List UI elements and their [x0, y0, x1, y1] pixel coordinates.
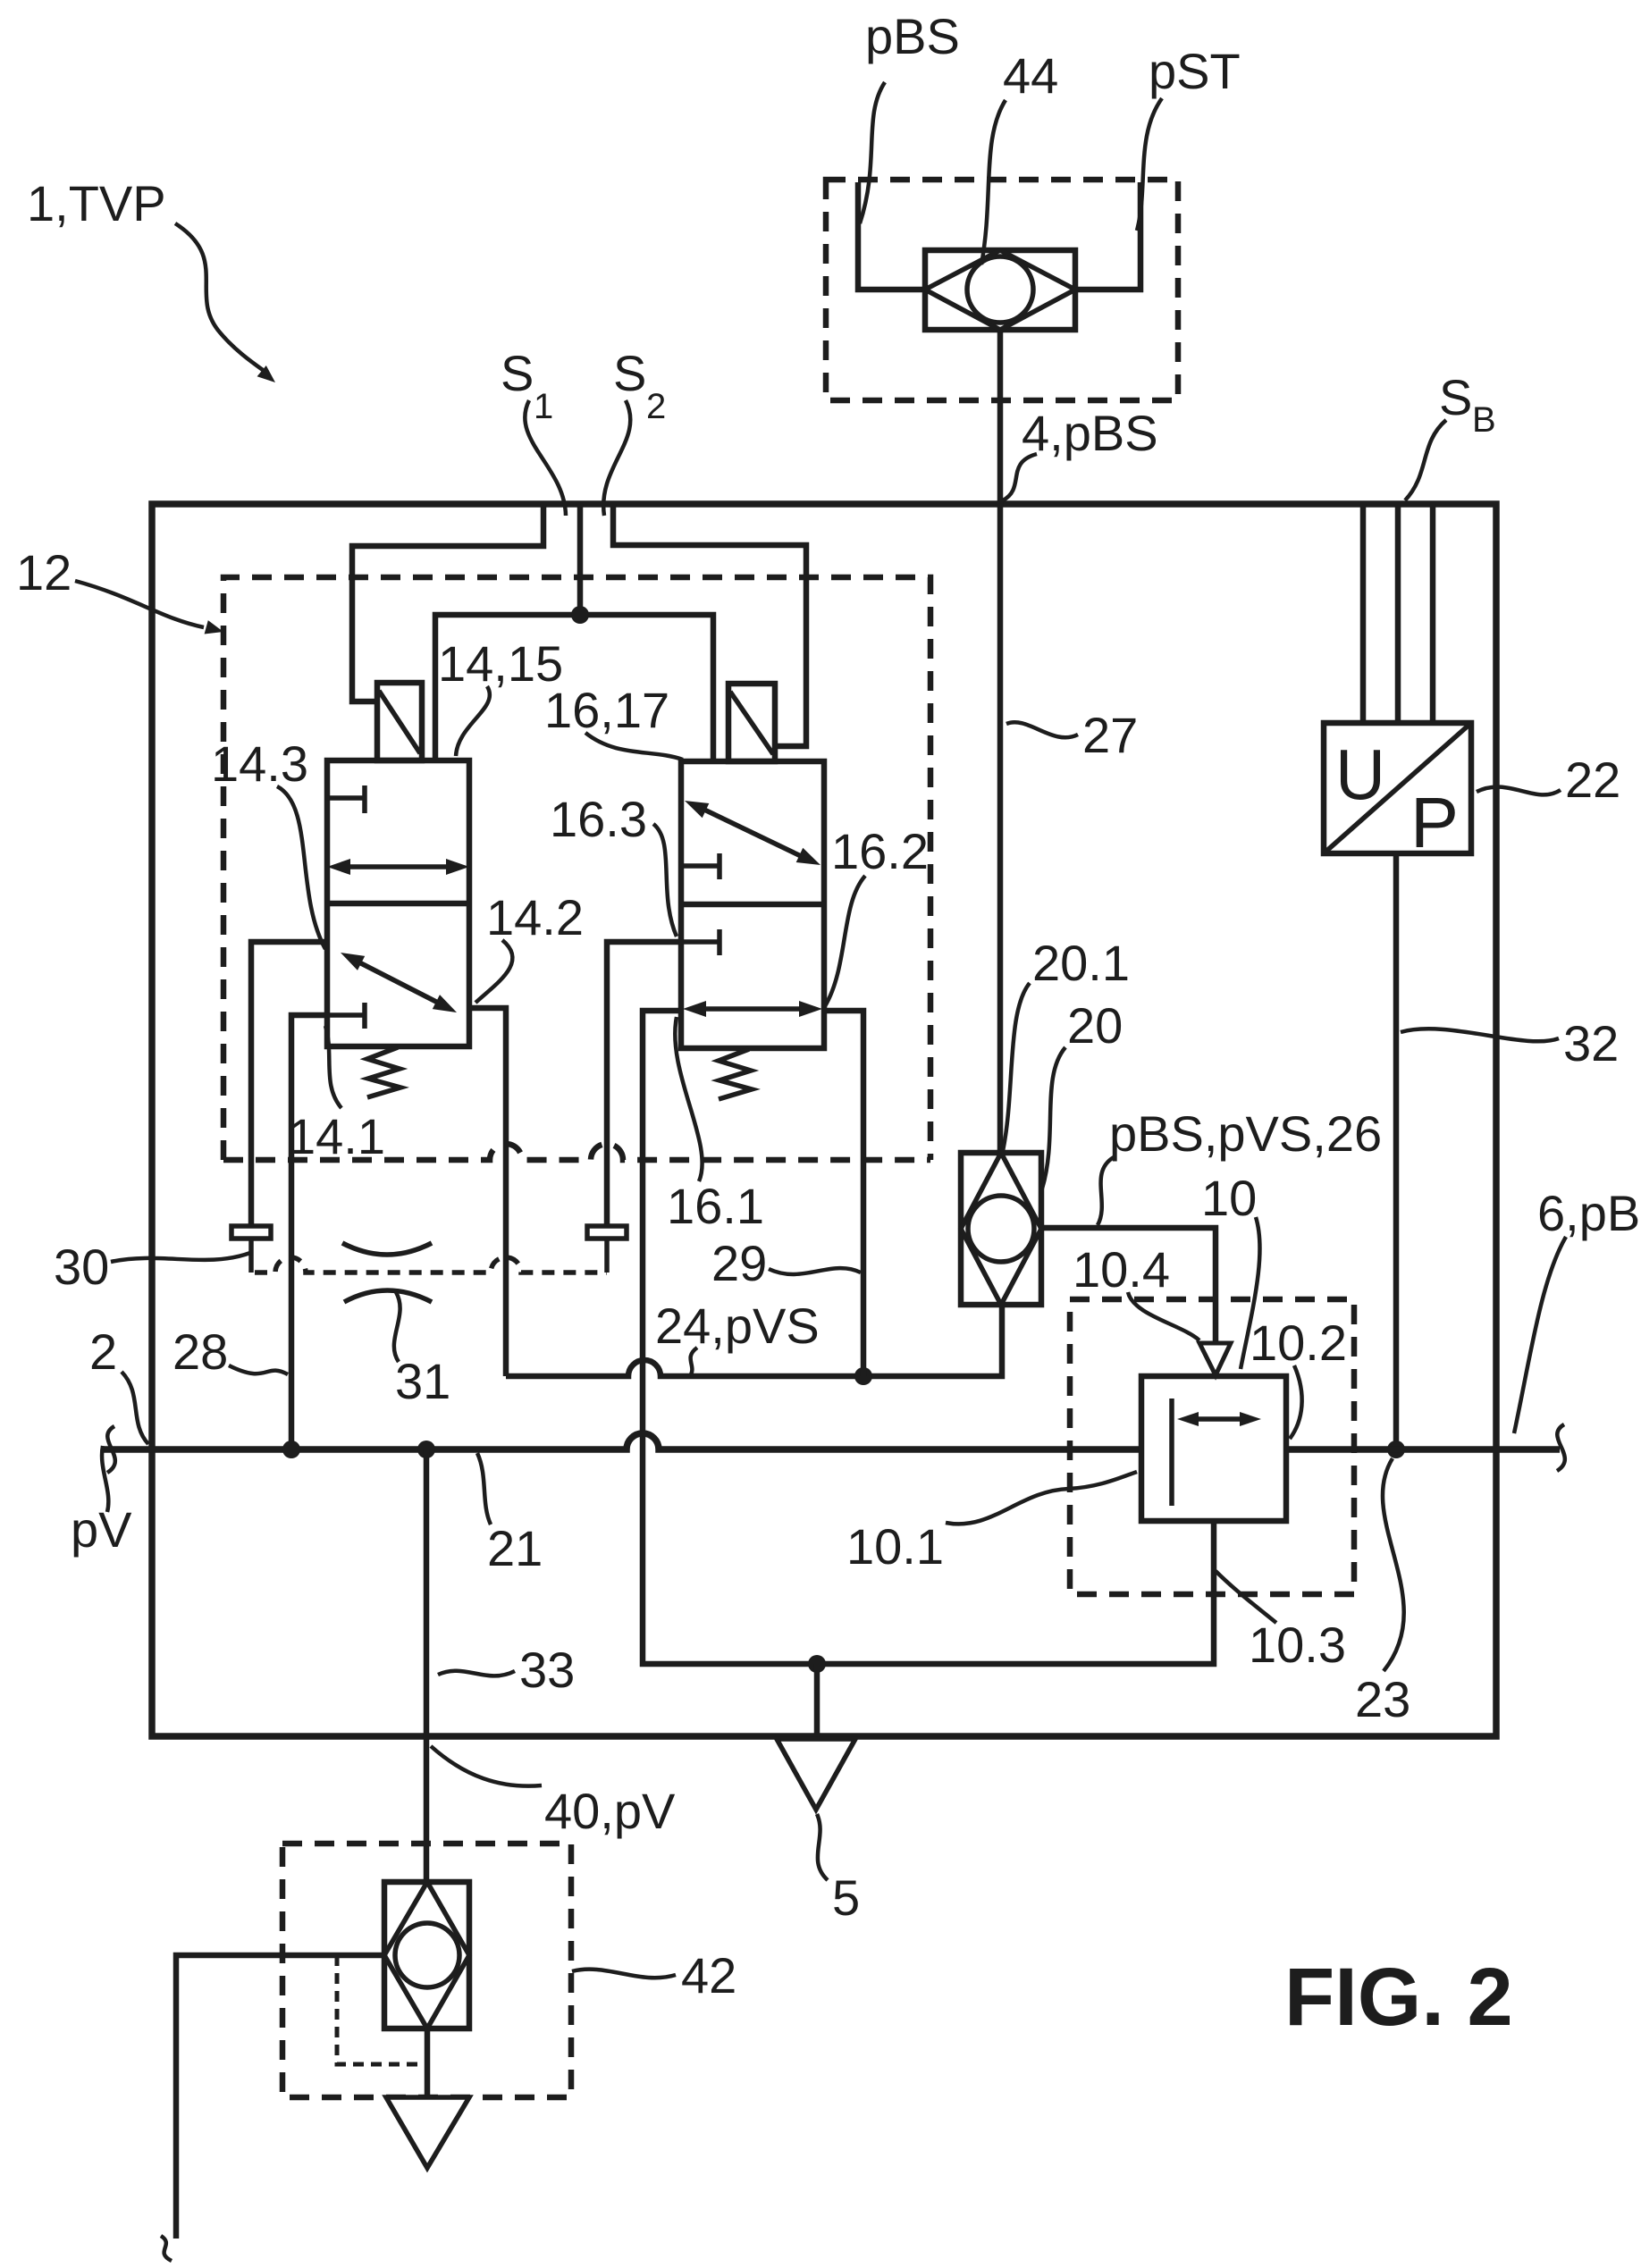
svg-text:pBS,pVS,26: pBS,pVS,26 [1109, 1105, 1382, 1162]
svg-text:28: 28 [173, 1323, 228, 1380]
valve 16 upper chamber diagonal double arrow [704, 810, 801, 856]
svg-text:32: 32 [1563, 1015, 1619, 1071]
wire: side feed line into check valve 42 [176, 1955, 386, 2239]
dashed box around check valve 42 [282, 1844, 571, 2097]
wire: S1 center line to node [577, 504, 584, 615]
node: dot rail/line28 [282, 1441, 300, 1458]
wire 32: from U/P converter down to main rail [1393, 853, 1400, 1449]
wire: check valve 42 outlet down [425, 2029, 431, 2097]
svg-text:24,pVS: 24,pVS [655, 1298, 820, 1354]
vent triangle below check valve 42 [386, 2097, 469, 2168]
svg-text:6,pB: 6,pB [1537, 1185, 1640, 1241]
wire: pVS rail with hop over line 16.1 [506, 1305, 1002, 1376]
valve 16 lower chamber blocked port T [681, 929, 720, 955]
svg-text:16.2: 16.2 [831, 823, 929, 879]
check valve 44 body [925, 250, 1075, 330]
wire: stub from interconnect down to housing bottom [814, 1664, 820, 1734]
pilot line pBS,pVS,26 from check valve 20 to relay pilot 10.4 [1041, 1228, 1216, 1343]
throttle 31 arcs [342, 1243, 432, 1255]
valve 14 lower chamber diagonal double arrow [359, 962, 438, 1003]
check valve 42 body [384, 1882, 469, 2029]
wire 33/40: rail down to check valve 42 [424, 1449, 430, 1882]
break symbol left rail end [107, 1426, 115, 1473]
svg-text:14.2: 14.2 [486, 889, 584, 945]
wire: S_B triple bus to U/P converter [1360, 504, 1367, 723]
wire 16.1: valve 16 lower-left port down and across to relay valve bottom [643, 1011, 1214, 1664]
svg-text:2: 2 [89, 1323, 117, 1380]
valve 14 upper chamber blocked port T [327, 785, 365, 813]
svg-text:42: 42 [681, 1947, 736, 2003]
svg-text:40,pV: 40,pV [544, 1783, 676, 1839]
dashed box 23 around relay valve [1070, 1299, 1354, 1594]
outer housing box 1,TVP [152, 504, 1496, 1736]
dashed vent line 31 with hops [255, 1257, 607, 1273]
svg-text:S: S [613, 345, 646, 401]
valve 16 body [681, 761, 824, 1048]
wire: pBS stub into box 44 [858, 182, 925, 290]
svg-text:16.3: 16.3 [550, 791, 647, 847]
svg-text:S: S [1439, 369, 1472, 425]
svg-text:12: 12 [16, 544, 72, 601]
svg-text:U: U [1335, 735, 1385, 814]
svg-text:20: 20 [1067, 997, 1123, 1054]
svg-text:2: 2 [646, 387, 666, 426]
svg-text:pV: pV [71, 1501, 132, 1558]
solenoid 17 [728, 684, 775, 761]
svg-text:33: 33 [519, 1642, 575, 1698]
node: dot pVS rail / valve16 line [854, 1367, 872, 1385]
svg-text:10.4: 10.4 [1073, 1241, 1170, 1298]
relay valve double arrow [1197, 1416, 1241, 1422]
svg-text:16.1: 16.1 [667, 1178, 764, 1234]
svg-text:14.3: 14.3 [211, 735, 308, 792]
wire 24,pVS: valve 14 lower-right port to pVS rail [469, 1008, 506, 1376]
node: S junction dot [571, 606, 589, 624]
silencer 30 plug symbol [231, 1226, 271, 1239]
silencer plug symbol under valve 16 [587, 1226, 627, 1239]
svg-text:10.1: 10.1 [846, 1518, 944, 1575]
svg-text:23: 23 [1355, 1671, 1410, 1727]
valve 16 upper chamber blocked port T [681, 853, 720, 879]
node: dot line32/main rail [1387, 1441, 1405, 1458]
check valve 20 body [961, 1153, 1041, 1305]
svg-text:10.2: 10.2 [1250, 1315, 1347, 1371]
svg-text:5: 5 [832, 1869, 860, 1926]
dashed pilot line of check valve 42 [337, 1955, 427, 2064]
svg-text:10.3: 10.3 [1249, 1617, 1346, 1673]
wire: valve 16 port to silencer [607, 942, 681, 1226]
svg-text:B: B [1472, 400, 1496, 440]
svg-text:20.1: 20.1 [1032, 935, 1130, 991]
svg-text:14.1: 14.1 [288, 1108, 385, 1164]
svg-text:22: 22 [1565, 752, 1620, 808]
valve 14 upper chamber flow double arrow [349, 864, 448, 869]
svg-text:S: S [501, 345, 534, 401]
dashed box 44 (two-way valve unit) [826, 180, 1178, 400]
relay valve 10 body [1141, 1376, 1286, 1521]
svg-text:1: 1 [534, 387, 553, 426]
valve 14 body [327, 760, 469, 1046]
break symbol right rail end [1557, 1424, 1565, 1471]
spring of valve 14 [367, 1047, 400, 1097]
node: dot rail/line33 [417, 1441, 435, 1458]
svg-text:16,17: 16,17 [544, 682, 669, 738]
svg-text:FIG. 2: FIG. 2 [1284, 1952, 1513, 2043]
svg-text:pBS: pBS [865, 8, 960, 64]
svg-text:1,TVP: 1,TVP [27, 175, 166, 231]
wire: S1 branch to solenoid 15 [352, 504, 543, 701]
valve 16 lower chamber flow double arrow [704, 1006, 801, 1012]
svg-text:44: 44 [1003, 47, 1058, 104]
dashed control box 12 [223, 577, 930, 1160]
svg-text:pST: pST [1149, 43, 1241, 99]
wire: node cross line between valves [435, 615, 713, 761]
wire 27: pBS line from valve 44 down to check valve 20 [997, 330, 1004, 1153]
break symbol at side line end [161, 2236, 172, 2261]
wire: valve 14 port to silencer 30 [251, 942, 327, 1226]
wire: S2 branch to solenoid 17 [613, 504, 806, 746]
valve 14 lower chamber blocked port T [327, 1003, 365, 1029]
wire: pST stub into box 44 [1075, 182, 1140, 290]
node: dot on bottom interconnect [808, 1655, 826, 1673]
svg-text:10: 10 [1201, 1170, 1257, 1226]
svg-text:27: 27 [1082, 707, 1138, 763]
svg-text:21: 21 [487, 1520, 543, 1576]
spring of valve 16 [719, 1049, 752, 1099]
svg-text:29: 29 [711, 1235, 767, 1291]
svg-text:4,pBS: 4,pBS [1022, 405, 1158, 461]
U/P converter 22 body [1324, 723, 1471, 853]
exhaust silencer 5 below housing [777, 1739, 855, 1810]
svg-text:P: P [1410, 783, 1459, 862]
pilot arrowhead 10.4 [1199, 1343, 1231, 1375]
wire 28: valve 14 lower-left port to main rail [291, 1015, 327, 1449]
main rail 21 (pV) with hop over line 16.1 [103, 1433, 1560, 1449]
svg-text:30: 30 [54, 1239, 109, 1295]
solenoid 15 [377, 683, 422, 760]
wire 29: valve 16 lower-right port down to pVS rail [824, 1011, 863, 1376]
relay valve piston line [1169, 1399, 1174, 1506]
svg-text:31: 31 [395, 1353, 450, 1409]
